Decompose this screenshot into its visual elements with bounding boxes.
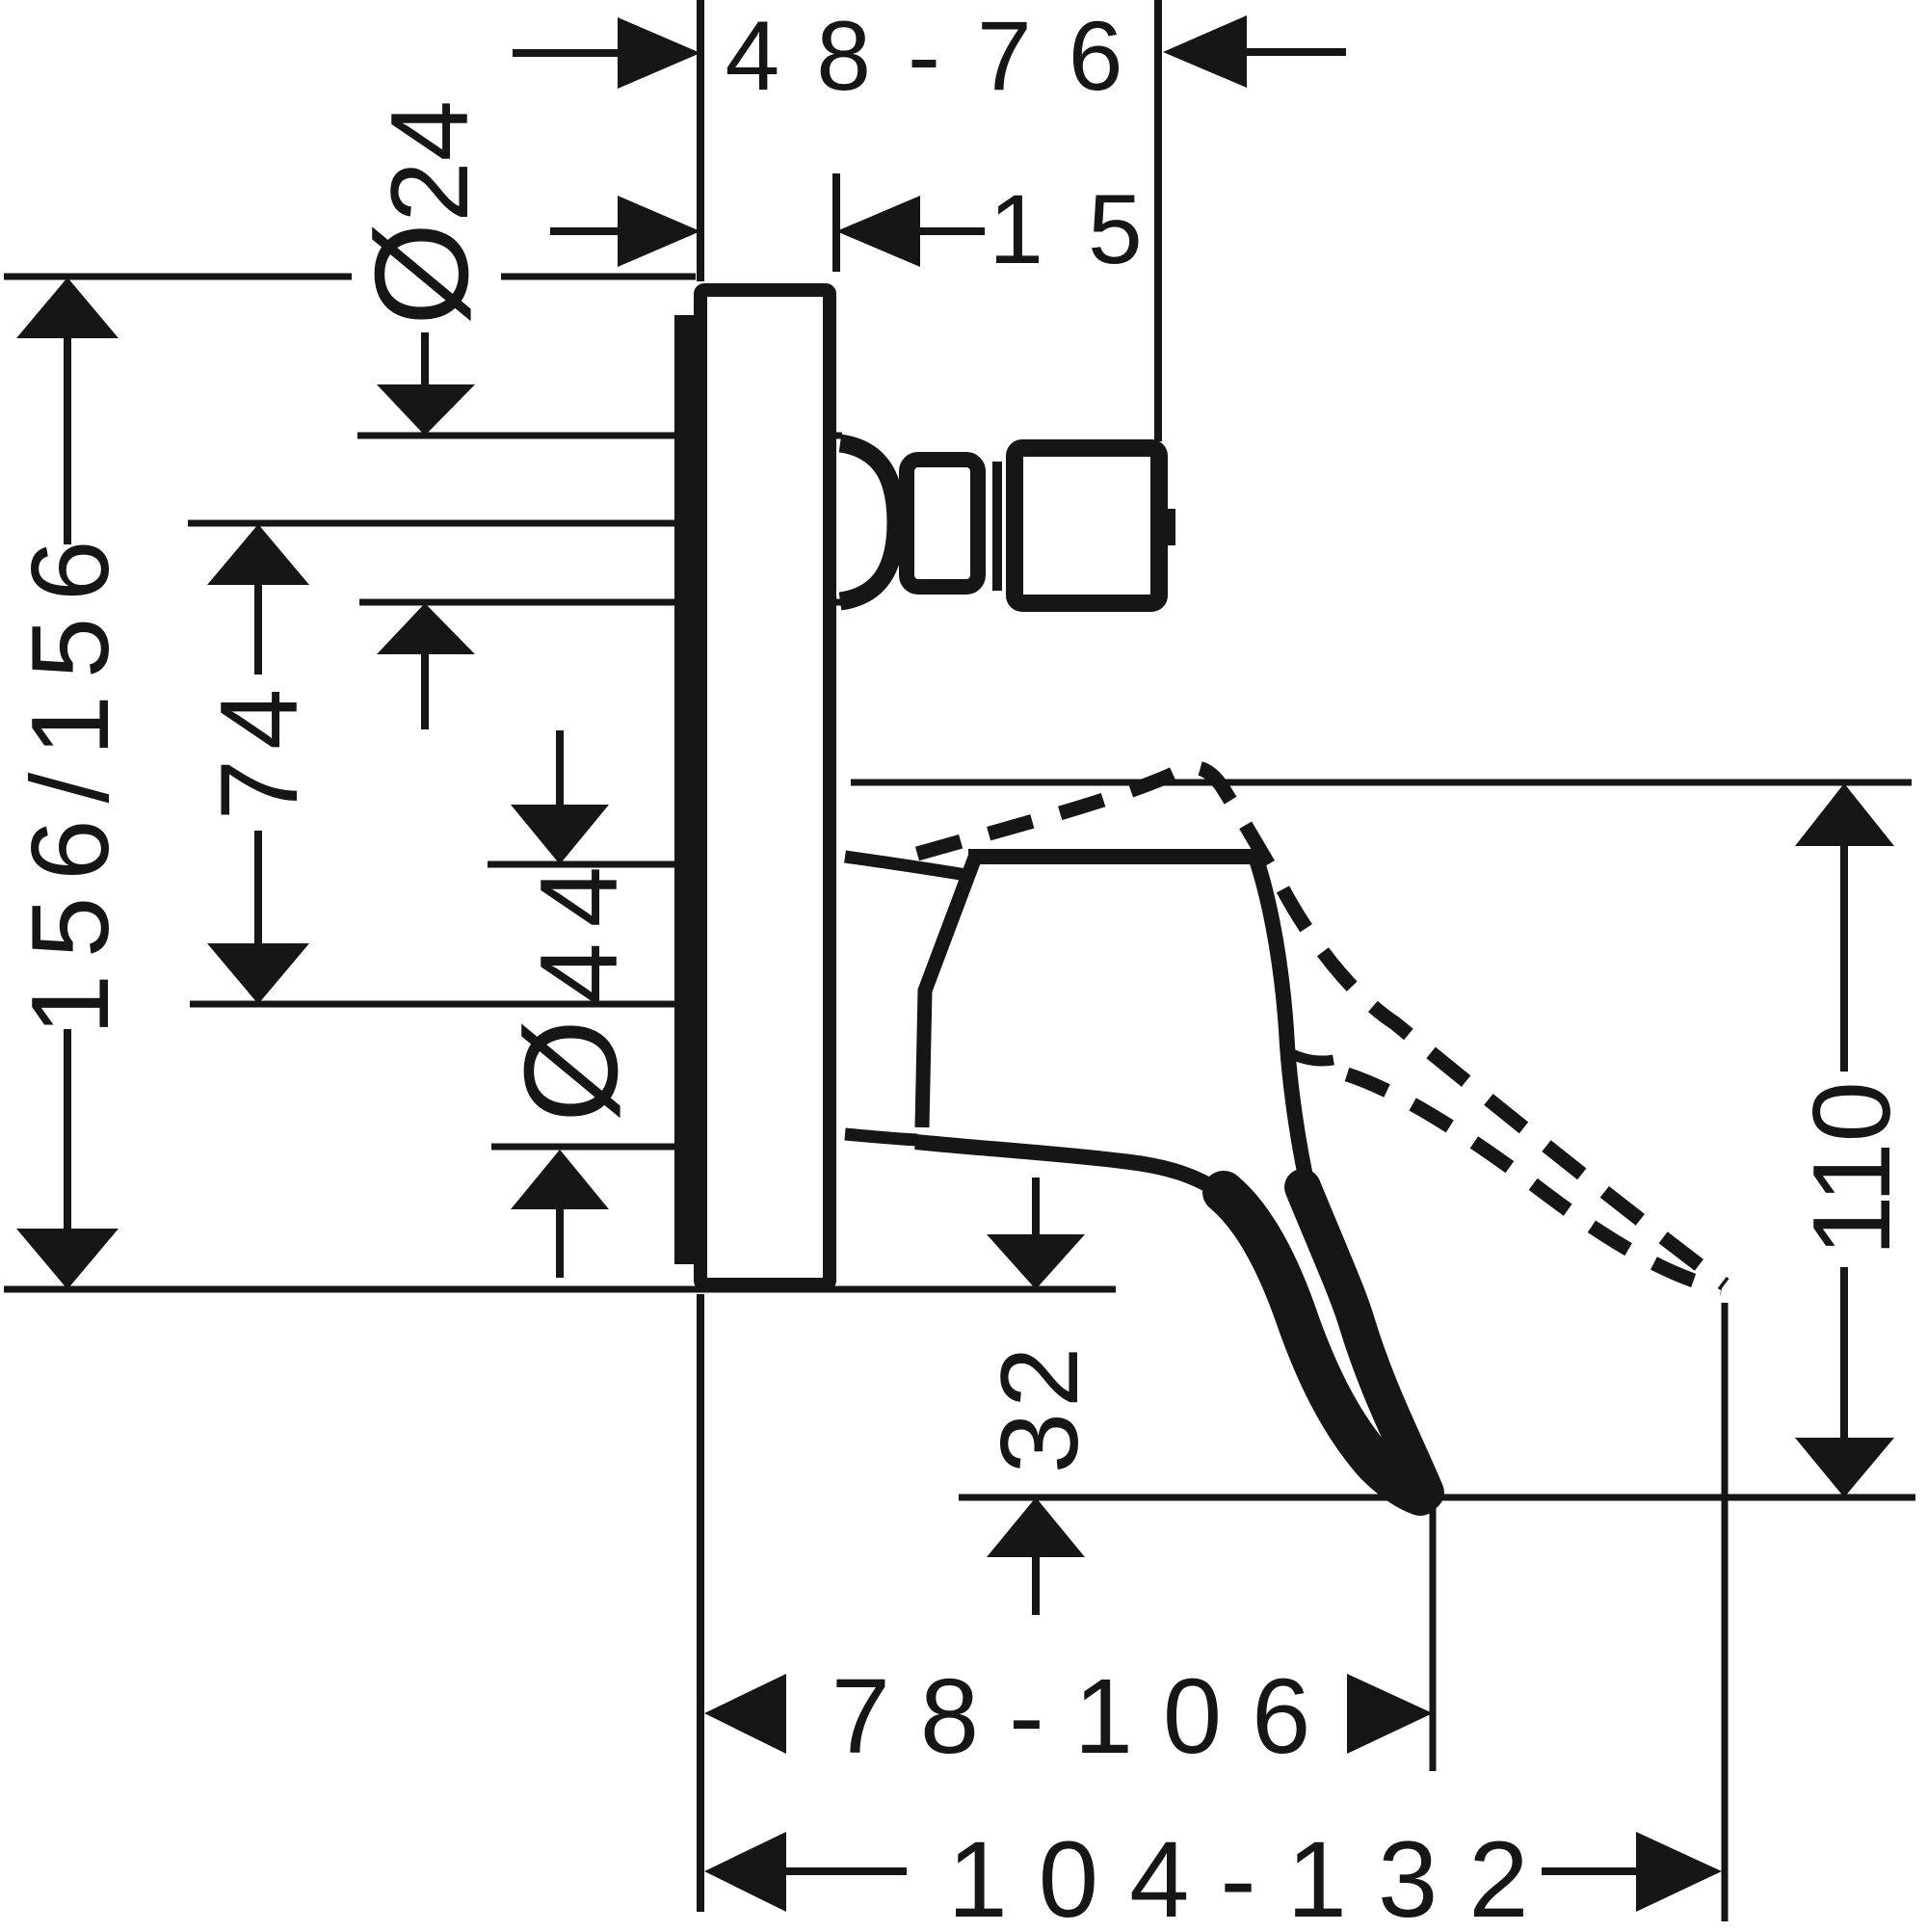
knob top extension line: [357, 433, 842, 439]
handle pivot spur: [1288, 1052, 1333, 1061]
handle collar top: [845, 857, 966, 875]
plate bottom extension line: [4, 1286, 1116, 1293]
lever tip extension line: [959, 1495, 1915, 1501]
svg-text:15: 15: [989, 174, 1186, 284]
knob neck: [907, 460, 978, 587]
svg-text:110: 110: [1791, 1081, 1914, 1257]
knob end cap: [1015, 448, 1159, 603]
dimension 48-76 left arrow: [513, 49, 621, 57]
knob collar line: [992, 462, 1002, 591]
handle body top and right edge: [968, 857, 1313, 1209]
escutcheon plate flange: [674, 315, 695, 1264]
svg-text:Ø44: Ø44: [497, 851, 646, 1123]
dimension 110 bottom arrow: [1840, 1267, 1848, 1441]
knob bulge: [840, 443, 896, 601]
svg-text:78-106: 78-106: [832, 1657, 1341, 1776]
line for Ø44 top: [488, 861, 674, 868]
dimension 110 top arrow: [1795, 783, 1894, 846]
knob stem nub: [1162, 509, 1175, 545]
dimension 156/156 bottom arrow: [64, 1029, 71, 1231]
Ø24 upper arrow: [421, 332, 429, 387]
escutcheon plate body: [700, 290, 830, 1284]
knob bottom extension line: [359, 599, 842, 606]
dimension 32 top arrow: [1032, 1178, 1040, 1238]
line for Ø44 bottom: [491, 1144, 678, 1151]
raised handle top extension line: [851, 780, 1912, 786]
dimension 15 left arrow: [550, 227, 621, 235]
dimension 104-132 right arrow: [1542, 1867, 1640, 1875]
dimension 32 bottom arrow: [987, 1497, 1085, 1557]
dimension 156/156 top arrow: [16, 278, 119, 338]
dimension 104-132 left arrow: [704, 1832, 786, 1912]
handle lever outer stroke: [1303, 1187, 1426, 1493]
dashed raised handle top edge: [917, 767, 1725, 1284]
line for 74 top: [188, 520, 674, 527]
wall extension line lower: [697, 1294, 704, 1912]
raised lever tip vertical extension: [1722, 1303, 1729, 1921]
plate top extension line: [4, 274, 352, 280]
lever tip vertical extension: [1430, 1497, 1437, 1771]
wall extension line upper: [697, 0, 704, 281]
handle body left slant edge: [922, 855, 976, 1127]
handle collar bottom: [845, 1134, 917, 1140]
dimension 15 right arrow: [836, 196, 920, 267]
dimension Ø44 top arrow: [556, 730, 564, 807]
svg-text:32: 32: [979, 1342, 1101, 1474]
svg-text:Ø24: Ø24: [348, 100, 496, 326]
svg-text:74: 74: [198, 679, 321, 821]
right extension line of 48-76: [1154, 0, 1162, 441]
tick for 15: [832, 173, 840, 272]
dimension Ø44 bottom arrow: [511, 1150, 609, 1209]
dimension 78-106 left arrow: [704, 1674, 786, 1754]
handle bottom edge: [915, 1142, 1227, 1198]
svg-text:48-76: 48-76: [726, 1, 1160, 111]
svg-text:104-132: 104-132: [947, 1819, 1559, 1927]
dashed raised handle lower edge: [1347, 1074, 1722, 1288]
handle lever inner stroke: [1224, 1192, 1420, 1495]
line for 74 bottom: [190, 1001, 674, 1008]
dimension 78-106 right arrow: [1347, 1674, 1433, 1754]
dimension 74 bottom arrow: [254, 831, 262, 946]
Ø24 lower arrow: [377, 603, 475, 654]
svg-text:156/156: 156/156: [10, 523, 132, 1035]
dimension 74 top arrow: [207, 524, 309, 585]
dimension 48-76 right arrow: [1163, 15, 1247, 88]
